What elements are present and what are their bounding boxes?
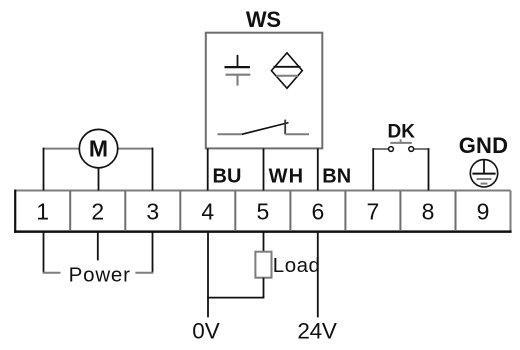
svg-text:8: 8: [422, 199, 435, 225]
svg-text:24V: 24V: [297, 319, 336, 344]
svg-text:7: 7: [367, 199, 380, 225]
svg-text:6: 6: [312, 199, 325, 225]
svg-text:2: 2: [91, 199, 104, 225]
svg-text:5: 5: [257, 199, 270, 225]
svg-text:BU: BU: [213, 165, 242, 187]
svg-text:3: 3: [146, 199, 159, 225]
svg-text:1: 1: [36, 199, 49, 225]
svg-text:WS: WS: [246, 7, 281, 32]
svg-text:Power: Power: [69, 263, 131, 286]
svg-text:M: M: [89, 136, 108, 162]
svg-text:4: 4: [201, 199, 214, 225]
svg-text:Load: Load: [273, 254, 321, 277]
svg-text:WH: WH: [269, 165, 305, 187]
svg-text:BN: BN: [322, 165, 351, 187]
svg-text:9: 9: [477, 199, 490, 225]
svg-text:0V: 0V: [192, 319, 220, 344]
svg-text:GND: GND: [459, 133, 509, 158]
